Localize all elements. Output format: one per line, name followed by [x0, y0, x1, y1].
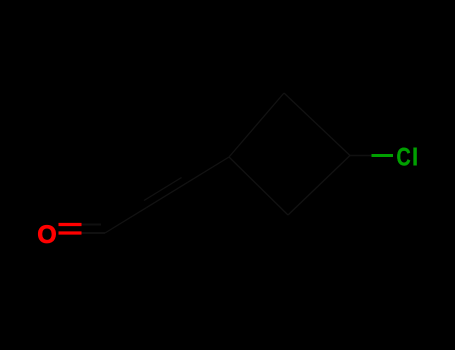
- ring edge South-West: [229, 157, 288, 215]
- bond C2=C3 second line: [144, 178, 182, 201]
- bond C3-ring West vertex: [188, 157, 229, 182]
- ring edge West-North: [229, 93, 284, 157]
- ring edge North-East: [284, 93, 350, 156]
- bond C1=O second line red half: [59, 223, 82, 226]
- svg-text:O: O: [37, 221, 56, 249]
- svg-text:C: C: [397, 144, 411, 172]
- bond C2=C3 main line: [146, 182, 187, 207]
- ring edge East-South: [288, 156, 350, 216]
- svg-text:l: l: [412, 144, 419, 172]
- bond C1-C2: [105, 208, 146, 233]
- bond C1=O main line red half: [59, 231, 82, 234]
- bond C1=O main line carbon half: [82, 232, 106, 234]
- bond C1=O second line carbon half: [82, 224, 102, 226]
- bond ring-Cl chlorine half: [372, 154, 394, 157]
- bond ring-Cl carbon half: [350, 155, 372, 157]
